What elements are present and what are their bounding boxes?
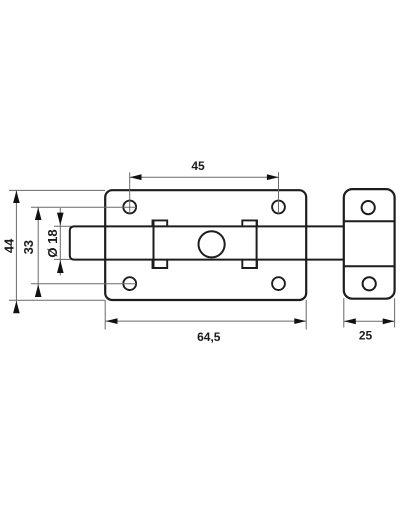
arrow 45 left bbox=[130, 174, 142, 180]
hole top-right bbox=[272, 201, 285, 214]
hole top-left bbox=[123, 201, 136, 214]
extension line plate left down bbox=[104, 300, 106, 330]
svg-text:33: 33 bbox=[21, 240, 36, 254]
bolt guide right edge bbox=[256, 220, 258, 269]
extension line hole TL left bbox=[31, 206, 136, 208]
extension line keeper right down bbox=[394, 298, 396, 327]
extension line keeper left down bbox=[343, 298, 345, 327]
dimension line 64.5 bbox=[106, 320, 306, 322]
svg-text:45: 45 bbox=[191, 159, 205, 173]
arrow d18 bottom bbox=[57, 260, 64, 273]
arrow 25 right bbox=[383, 318, 395, 324]
extension line bar bottom left bbox=[54, 258, 71, 260]
guide tab bottom-left bbox=[153, 260, 168, 268]
keeper plate bbox=[344, 189, 395, 299]
arrow 45 right bbox=[267, 174, 279, 180]
guide tab top-right bbox=[242, 220, 257, 226]
arrow 64.5 left bbox=[106, 318, 118, 324]
guide tab bottom-right bbox=[242, 260, 257, 268]
keeper bridge upper line bbox=[344, 220, 395, 222]
dimension line 44 bbox=[15, 190, 17, 302]
dimension line d18 bbox=[59, 208, 61, 276]
arrow 64.5 right bbox=[294, 318, 306, 324]
main plate bbox=[105, 190, 306, 300]
keeper hole top bbox=[362, 201, 375, 214]
extension line bar top left bbox=[54, 225, 71, 227]
keeper bridge lower line bbox=[344, 265, 395, 267]
extension line hole TL up bbox=[129, 172, 131, 213]
arrow 25 left bbox=[344, 318, 356, 324]
svg-text:64,5: 64,5 bbox=[197, 330, 221, 344]
guide tab top-left bbox=[153, 220, 168, 226]
dimension line 33 bbox=[37, 207, 39, 296]
extension line plate bottom left bbox=[9, 299, 105, 301]
knob circle bbox=[199, 231, 225, 257]
hole bottom-left bbox=[123, 277, 136, 290]
arrow 44 bottom bbox=[13, 301, 20, 313]
hole bottom-right bbox=[272, 277, 285, 290]
arrow 44 top bbox=[13, 191, 20, 203]
extension line hole TR up bbox=[278, 172, 280, 213]
arrow 33 bottom bbox=[35, 285, 42, 298]
dimension line 25 bbox=[344, 320, 394, 322]
extension line plate top left bbox=[9, 189, 105, 191]
svg-text:25: 25 bbox=[359, 329, 373, 343]
bolt bar bbox=[70, 226, 344, 259]
bolt guide left edge bbox=[153, 220, 155, 269]
arrow d18 top bbox=[57, 213, 64, 226]
keeper hole bottom bbox=[363, 277, 376, 290]
arrow 33 top bbox=[35, 208, 42, 221]
dimension line 45 bbox=[130, 176, 279, 178]
svg-text:44: 44 bbox=[2, 238, 17, 253]
extension line hole BL left bbox=[31, 283, 136, 285]
svg-text:Ø 18: Ø 18 bbox=[45, 229, 60, 257]
extension line plate right down bbox=[305, 300, 307, 330]
